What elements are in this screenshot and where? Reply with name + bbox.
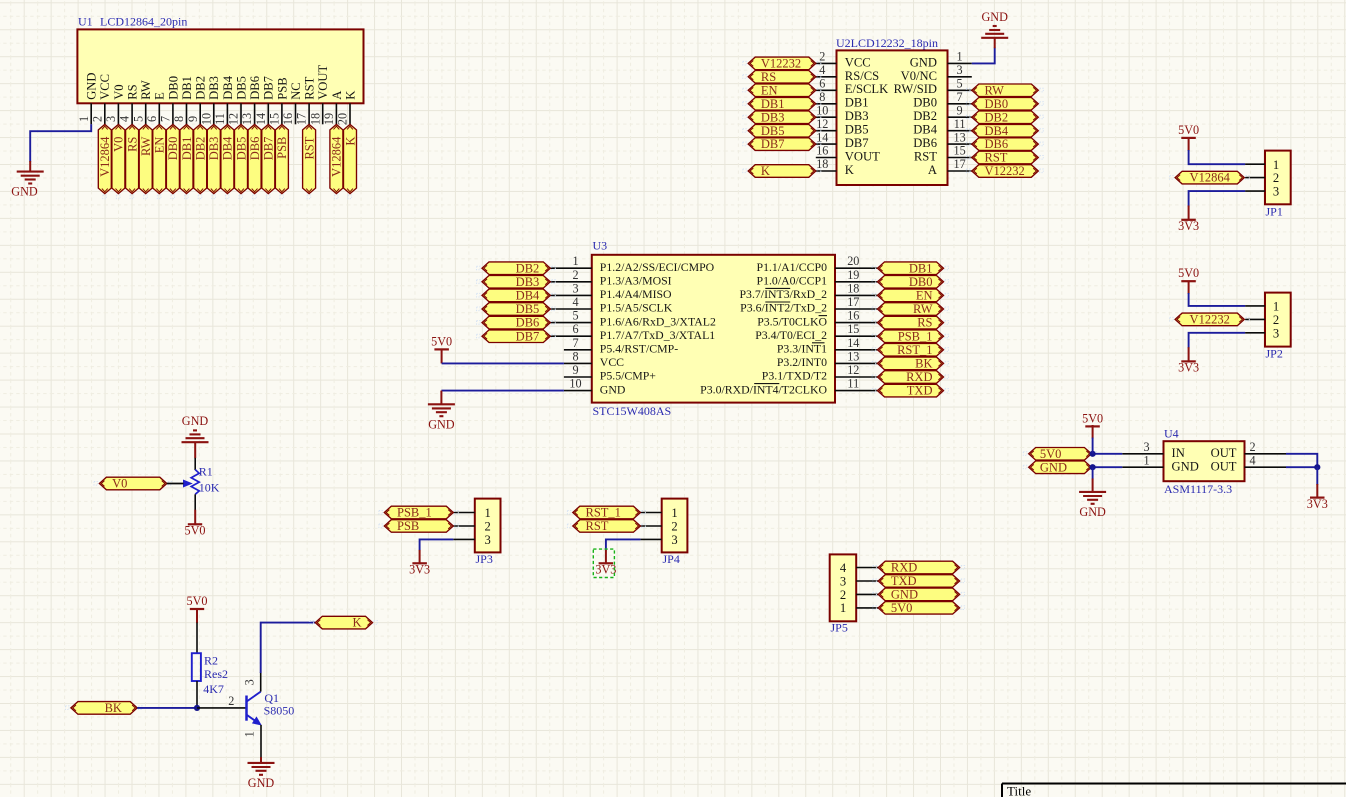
U1 pin 6 (E) (145, 92, 167, 125)
R2 top pin (196, 609, 198, 654)
svg-text:DB6: DB6 (248, 76, 262, 100)
svg-text:JP4: JP4 (663, 552, 680, 566)
port RST_1 (U3 right) (872, 343, 948, 357)
svg-text:GND: GND (182, 414, 209, 428)
resistor R1 10K (potentiometer) (191, 465, 220, 495)
port RST (U1 pin 17) (302, 124, 316, 198)
svg-text:16: 16 (281, 113, 295, 125)
ground GND (R1 top, inverted) (182, 414, 209, 442)
U3 pin 18 (P3.7/INT3/RxD_2) (740, 281, 878, 301)
R1 wiper arrow (183, 480, 193, 488)
svg-text:2: 2 (484, 520, 490, 534)
svg-text:RW: RW (139, 80, 153, 100)
svg-text:3V3: 3V3 (595, 563, 616, 577)
svg-text:DB0: DB0 (166, 76, 180, 100)
U2 pin 2 (VCC) (816, 50, 871, 70)
svg-text:5: 5 (572, 309, 578, 323)
svg-text:V0/NC: V0/NC (901, 69, 937, 83)
svg-text:5V0: 5V0 (431, 334, 452, 348)
svg-text:DB2: DB2 (194, 137, 208, 161)
svg-text:U2LCD12232_18pin: U2LCD12232_18pin (836, 36, 938, 50)
svg-text:DB4: DB4 (913, 123, 937, 137)
connector JP1 (1265, 151, 1291, 219)
U3 pin 4 (P1.5/A5/SCLK) (551, 295, 673, 315)
svg-text:DB2: DB2 (985, 110, 1009, 124)
svg-text:PSB_1: PSB_1 (898, 329, 933, 343)
wire 3V3 stem (1316, 467, 1318, 497)
svg-text:DB5: DB5 (234, 137, 248, 161)
svg-text:GND: GND (1172, 459, 1199, 473)
svg-text:P5.4/RST/CMP-: P5.4/RST/CMP- (600, 342, 678, 356)
port DB5 (U1 pin 12) (234, 124, 248, 198)
svg-text:DB7: DB7 (262, 137, 276, 161)
U4 pin 4 (OUT) (1211, 454, 1286, 474)
power 5V0 (R1) (185, 524, 206, 538)
junction base node (194, 705, 200, 711)
U2 pin 4 (RS/CS) (816, 63, 879, 83)
svg-text:BK: BK (105, 701, 122, 715)
U2 pin 10 (DB3) (816, 103, 869, 123)
port DB3 (U2 left) (743, 110, 821, 124)
svg-text:OUT: OUT (1211, 446, 1237, 460)
svg-text:RST_1: RST_1 (586, 506, 621, 520)
svg-text:2: 2 (572, 268, 578, 282)
port PSB_1 (JP3 pin1) (379, 506, 458, 520)
svg-text:DB2: DB2 (516, 261, 540, 275)
U2 pin 12 (DB5) (816, 117, 869, 137)
port V12864 (U1 pin 19) (330, 124, 344, 198)
svg-text:DB3: DB3 (761, 110, 785, 124)
svg-text:3: 3 (572, 281, 578, 295)
port PSB (U1 pin 15) (275, 124, 289, 198)
svg-text:DB3: DB3 (207, 76, 221, 100)
svg-text:8: 8 (572, 349, 578, 363)
power 3V3 (U4 out) (1307, 497, 1328, 511)
JP5 pin 3 (840, 574, 878, 588)
svg-text:DB1: DB1 (761, 97, 785, 111)
svg-text:PSB: PSB (397, 519, 419, 533)
U3 pin 12 (P3.1/TXD/T2) (762, 363, 878, 383)
svg-text:2: 2 (1273, 313, 1279, 327)
svg-text:DB0: DB0 (985, 97, 1009, 111)
svg-text:12: 12 (227, 113, 241, 125)
svg-text:P3.4/T0/ECI_2: P3.4/T0/ECI_2 (755, 328, 827, 342)
svg-text:K: K (343, 91, 357, 100)
JP3 pin 3 (453, 533, 490, 547)
wire U3 pin10 to ground (441, 390, 564, 392)
U2 pin 6 (E/SCLK) (816, 77, 888, 97)
port TXD (U3 right) (872, 384, 948, 398)
junction at 5V0 node (1090, 451, 1096, 457)
svg-text:DB0: DB0 (913, 96, 937, 110)
svg-text:DB5: DB5 (234, 76, 248, 100)
svg-text:V12864: V12864 (1190, 171, 1231, 185)
svg-text:P1.2/A2/SS/ECI/CMPO: P1.2/A2/SS/ECI/CMPO (600, 260, 715, 274)
svg-text:V12232: V12232 (1190, 313, 1230, 327)
port K (U2 left) (743, 164, 821, 178)
svg-text:Res2: Res2 (204, 667, 228, 681)
U2 pin 11 (DB4) (913, 117, 972, 137)
svg-text:DB1: DB1 (180, 137, 194, 161)
wire 5V0 port to U4 pin3 (1091, 453, 1122, 455)
U3 pin 7 (P5.4/RST/CMP-) (564, 336, 678, 356)
svg-text:R2: R2 (204, 653, 218, 667)
svg-text:4: 4 (118, 116, 132, 122)
svg-text:DB6: DB6 (248, 137, 262, 161)
svg-text:P5.5/CMP+: P5.5/CMP+ (600, 369, 657, 383)
svg-text:A: A (928, 163, 937, 177)
U1 pin 8 (DB1) (172, 76, 194, 124)
U1 pin 17 (RST) (295, 76, 317, 125)
port DB4 (U2 right) (966, 124, 1043, 138)
svg-text:16: 16 (847, 309, 859, 323)
svg-text:P3.3/INT1: P3.3/INT1 (777, 342, 827, 356)
svg-text:R1: R1 (199, 465, 213, 479)
wire U1 pin1 to ground (30, 124, 91, 161)
port EN (U2 left) (743, 83, 821, 97)
svg-text:1: 1 (484, 506, 490, 520)
svg-text:VCC: VCC (845, 55, 871, 69)
port K (U1 pin 20) (343, 124, 357, 198)
svg-text:RS: RS (126, 84, 140, 99)
svg-text:18: 18 (847, 281, 859, 295)
svg-text:RST: RST (914, 149, 937, 163)
svg-text:EN: EN (761, 83, 778, 97)
JP4 pin 1 (640, 506, 677, 520)
svg-text:GND: GND (248, 776, 275, 790)
port DB0 (U2 right) (966, 97, 1043, 111)
U2 pin 9 (DB2) (913, 103, 972, 123)
svg-text:VCC: VCC (600, 355, 624, 369)
svg-text:P3.0/RXD/INT4/T2CLKO: P3.0/RXD/INT4/T2CLKO (700, 382, 827, 396)
U4 pin 1 (GND) (1122, 454, 1199, 474)
R1 bottom pin to 5V0 (194, 494, 196, 524)
svg-text:IN: IN (1172, 446, 1185, 460)
svg-text:OUT: OUT (1211, 459, 1237, 473)
svg-text:3: 3 (243, 679, 257, 685)
svg-text:3V3: 3V3 (1307, 497, 1328, 511)
JP1 pin 3 (1245, 185, 1279, 199)
JP5 pin 1 (840, 601, 878, 615)
R2 bottom pin (196, 681, 198, 708)
svg-text:RW: RW (139, 136, 153, 156)
port RW (U2 right) (966, 83, 1043, 97)
U1 pin 10 (DB3) (199, 76, 221, 125)
port RXD (JP5) (873, 561, 965, 575)
svg-text:6: 6 (145, 116, 159, 122)
svg-text:P1.1/A1/CCP0: P1.1/A1/CCP0 (757, 260, 828, 274)
svg-text:DB6: DB6 (985, 137, 1009, 151)
port PSB_1 (U3 right) (872, 329, 948, 343)
svg-text:DB5: DB5 (761, 124, 785, 138)
U4 pin 2 (OUT) (1211, 440, 1286, 460)
svg-text:4: 4 (1249, 454, 1255, 468)
svg-text:P1.4/A4/MISO: P1.4/A4/MISO (600, 287, 672, 301)
svg-text:DB7: DB7 (845, 136, 869, 150)
port PSB (JP3 pin2) (379, 519, 458, 533)
svg-text:DB4: DB4 (516, 289, 540, 303)
svg-text:PSB_1: PSB_1 (397, 506, 432, 520)
port DB7 (U3 left) (477, 329, 556, 343)
U3 pin 13 (P3.2/INT0) (777, 349, 878, 369)
port V12232 (U2 right) (966, 164, 1043, 178)
svg-text:GND: GND (428, 417, 455, 431)
svg-text:V0: V0 (112, 84, 126, 99)
svg-text:12: 12 (847, 363, 859, 377)
wire U2 pin1 to ground (972, 48, 995, 64)
port 5V0 (U4 in) (1023, 447, 1096, 461)
svg-text:VOUT: VOUT (845, 149, 880, 163)
ground GND (U3) (428, 391, 455, 432)
svg-text:NC: NC (289, 82, 303, 100)
svg-text:11: 11 (954, 117, 966, 131)
wire JP2 pin3 to 3V3 (1189, 333, 1246, 362)
svg-text:BK: BK (915, 357, 932, 371)
U3 pin 9 (P5.5/CMP+) (564, 363, 656, 383)
power 5V0 (U4) (1082, 411, 1103, 426)
svg-text:PSB: PSB (275, 137, 289, 159)
svg-text:P3.6/INT2/TxD_2: P3.6/INT2/TxD_2 (740, 301, 827, 315)
svg-text:1: 1 (671, 506, 677, 520)
svg-text:DB1: DB1 (909, 261, 933, 275)
port DB1 (U3 right) (872, 261, 948, 275)
port DB7 (U2 left) (743, 137, 821, 151)
U1 pin 9 (DB2) (186, 76, 208, 124)
U3 pin 5 (P1.6/A6/RxD_3/XTAL2) (551, 309, 716, 329)
port DB2 (U3 left) (477, 261, 556, 275)
wire 5V0 to JP2 pin1 (1189, 281, 1246, 306)
power 3V3 (JP1) (1178, 219, 1199, 233)
svg-text:P1.3/A3/MOSI: P1.3/A3/MOSI (600, 274, 672, 288)
svg-text:1: 1 (957, 50, 963, 64)
U2 pin 5 (RW/SID) (894, 77, 972, 97)
wire JP1 pin3 to 3V3 (1189, 191, 1246, 220)
svg-text:6: 6 (572, 322, 578, 336)
U1 pin 3 (V0) (104, 84, 126, 124)
svg-text:DB3: DB3 (207, 137, 221, 161)
svg-text:RST: RST (586, 519, 609, 533)
svg-text:16: 16 (816, 144, 828, 158)
svg-text:DB4: DB4 (221, 136, 235, 160)
svg-text:K: K (845, 163, 854, 177)
U1 pin 14 (DB7) (254, 76, 276, 125)
svg-text:3: 3 (1143, 440, 1149, 454)
svg-text:2: 2 (228, 694, 234, 708)
svg-text:DB3: DB3 (516, 275, 540, 289)
U1 pin 2 (VCC) (90, 74, 112, 124)
JP2 pin 2 (1245, 313, 1279, 327)
ground GND (Q1) (248, 757, 275, 790)
wire U4 pin4 to 3V3 node (1286, 466, 1317, 468)
JP1 pin 1 (1245, 158, 1279, 172)
U3 pin 20 (P1.1/A1/CCP0) (757, 254, 878, 274)
port DB3 (U3 left) (477, 275, 556, 289)
svg-text:11: 11 (847, 377, 859, 391)
U1 pin 12 (DB5) (227, 76, 249, 125)
svg-text:U4: U4 (1164, 427, 1179, 441)
svg-text:GND: GND (981, 10, 1008, 24)
power 3V3 (JP3) (409, 563, 430, 577)
svg-text:3: 3 (104, 116, 118, 122)
port DB7 (U1 pin 14) (262, 124, 276, 198)
svg-text:19: 19 (847, 268, 859, 282)
U2 pin 14 (DB7) (816, 130, 869, 150)
junction at 3V3 node (1314, 464, 1320, 470)
svg-text:3: 3 (840, 574, 846, 588)
svg-text:10: 10 (199, 113, 213, 125)
svg-text:EN: EN (916, 289, 933, 303)
svg-text:1: 1 (1143, 454, 1149, 468)
svg-text:2: 2 (840, 588, 846, 602)
svg-text:GND: GND (1079, 505, 1106, 519)
svg-text:DB6: DB6 (516, 316, 540, 330)
svg-text:STC15W408AS: STC15W408AS (593, 404, 672, 418)
port V12864 (U1 pin 2) (98, 124, 112, 198)
wire 5V0 to JP1 pin1 (1189, 138, 1246, 165)
power 3V3 (JP4, selected) (595, 563, 616, 577)
svg-text:14: 14 (254, 113, 268, 125)
U1 pin 13 (DB6) (240, 76, 262, 125)
connector JP3 (475, 499, 501, 566)
port DB6 (U3 left) (477, 316, 556, 330)
svg-text:V12864: V12864 (330, 136, 344, 177)
svg-text:5V0: 5V0 (185, 524, 206, 538)
svg-text:Title: Title (1007, 783, 1031, 797)
port BK (66, 701, 143, 715)
svg-text:3: 3 (957, 63, 963, 77)
svg-text:RW/SID: RW/SID (894, 82, 937, 96)
svg-text:V0: V0 (112, 477, 127, 491)
port V0 (U1 pin 3) (112, 124, 126, 198)
svg-text:DB1: DB1 (180, 76, 194, 100)
U3 pin 16 (P3.5/T0CLKO) (757, 309, 877, 329)
svg-text:P3.1/TXD/T2: P3.1/TXD/T2 (762, 369, 827, 383)
svg-text:2: 2 (1273, 171, 1279, 185)
svg-text:3: 3 (671, 533, 677, 547)
svg-text:20: 20 (336, 113, 350, 125)
U1 pin 1 (GND) (77, 73, 99, 125)
port GND (U4 in) (1023, 460, 1096, 474)
svg-text:V12232: V12232 (985, 164, 1025, 178)
svg-text:VOUT: VOUT (316, 65, 330, 100)
JP1 pin 2 (1245, 171, 1279, 185)
svg-text:GND: GND (891, 588, 918, 602)
U2 pin 3 (V0/NC) (901, 63, 972, 83)
svg-text:RST_1: RST_1 (897, 343, 932, 357)
U2 pin 18 (K) (816, 157, 854, 177)
port V12232 (U2 left) (743, 57, 821, 71)
svg-text:DB2: DB2 (913, 109, 937, 123)
svg-text:17: 17 (847, 295, 859, 309)
svg-text:JP5: JP5 (831, 620, 848, 634)
port RST_1 (JP4 pin1) (567, 506, 645, 520)
svg-text:3: 3 (1273, 326, 1279, 340)
svg-text:K: K (761, 164, 770, 178)
svg-text:JP2: JP2 (1266, 347, 1283, 361)
svg-text:17: 17 (295, 113, 309, 125)
svg-text:RST: RST (302, 136, 316, 159)
svg-text:10K: 10K (199, 481, 220, 495)
overline INT1 (U3 pin14) (812, 342, 825, 344)
port DB2 (U2 right) (966, 110, 1043, 124)
IC U2 LCD12232_18pin (836, 36, 948, 185)
ground GND (U4) (1079, 492, 1106, 519)
wire 5V0 to U3 pin8 (442, 349, 564, 363)
port GND (JP5) (873, 588, 965, 602)
svg-text:19: 19 (322, 113, 336, 125)
svg-text:RW: RW (913, 302, 933, 316)
U1 pin 5 (RW) (131, 80, 153, 124)
resistor R2 Res2 4K7 (192, 653, 228, 696)
port V12864 (JP1 pin2) (1170, 171, 1250, 185)
svg-text:P3.5/T0CLKO: P3.5/T0CLKO (757, 314, 827, 328)
svg-text:RS: RS (761, 70, 776, 84)
svg-text:JP1: JP1 (1266, 204, 1283, 218)
svg-text:15: 15 (268, 113, 282, 125)
svg-text:2: 2 (671, 520, 677, 534)
svg-text:5V0: 5V0 (1178, 266, 1199, 280)
U3 pin 17 (P3.6/INT2/TxD_2) (740, 295, 877, 315)
svg-text:10: 10 (569, 377, 581, 391)
JP4 pin 3 (640, 533, 677, 547)
svg-text:PSB: PSB (275, 77, 289, 99)
svg-text:DB5: DB5 (845, 123, 869, 137)
U1 pin 20 (K) (336, 91, 358, 125)
wire BK to base node (137, 707, 197, 709)
svg-text:S8050: S8050 (264, 704, 295, 718)
svg-text:3: 3 (1273, 185, 1279, 199)
overline INT3 (U3 pin18) (765, 287, 790, 289)
Q1 pin 2 (base) (197, 694, 247, 708)
port RW (U1 pin 5) (139, 124, 153, 198)
svg-text:4: 4 (840, 561, 847, 575)
power 3V3 (JP2) (1178, 361, 1199, 375)
svg-text:1: 1 (572, 254, 578, 268)
connector JP5 (830, 554, 857, 634)
IC U1 LCD12864_20pin (77, 15, 363, 104)
svg-text:EN: EN (153, 137, 167, 154)
svg-text:1: 1 (77, 116, 91, 122)
U4 pin 3 (IN) (1122, 440, 1185, 460)
IC U3 STC15W408AS (592, 239, 835, 419)
R1 stem from ground (194, 442, 196, 470)
svg-text:GND: GND (910, 55, 937, 69)
JP5 pin 4 (840, 561, 878, 575)
JP5 pin 2 (840, 588, 878, 602)
svg-text:13: 13 (240, 113, 254, 125)
svg-text:GND: GND (11, 185, 38, 199)
svg-text:K: K (343, 137, 357, 146)
svg-text:V12232: V12232 (761, 57, 801, 71)
svg-text:DB7: DB7 (761, 137, 785, 151)
svg-text:E/SCLK: E/SCLK (845, 82, 888, 96)
U1 pin 19 (A) (322, 91, 344, 125)
JP2 pin 1 (1245, 300, 1279, 314)
svg-text:P1.0/A0/CCP1: P1.0/A0/CCP1 (757, 274, 828, 288)
U3 pin 3 (P1.4/A4/MISO) (551, 281, 673, 301)
wire GND port to U4 pin1 (1091, 466, 1122, 468)
U2 pin 1 (GND) (910, 50, 972, 70)
svg-text:DB0: DB0 (166, 137, 180, 161)
U1 pin 18 (VOUT) (308, 65, 330, 126)
connector JP4 (662, 499, 688, 566)
svg-text:RS: RS (917, 316, 932, 330)
U2 pin 15 (RST) (914, 144, 972, 164)
U2 pin 17 (A) (928, 157, 972, 177)
junction at GND node (1090, 464, 1096, 470)
svg-text:DB4: DB4 (221, 75, 235, 99)
svg-text:DB3: DB3 (845, 109, 869, 123)
